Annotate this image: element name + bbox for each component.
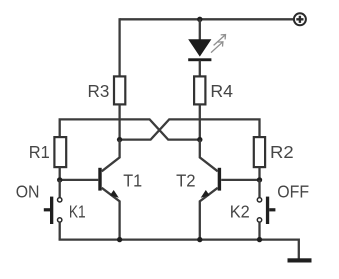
pushbutton K2	[257, 197, 275, 224]
wire cross-coupling: R1 top to T2 collector node	[60, 119, 200, 139]
wire left drop from rail to R3	[118, 18, 120, 76]
wire base node to K1 top contact	[59, 180, 61, 197]
label K2	[230, 202, 250, 222]
wire K2 bottom contact to ground rail	[258, 222, 260, 239]
wire base node to K2 top contact	[258, 180, 260, 197]
resistor R2	[254, 137, 265, 167]
label K1	[69, 202, 86, 222]
ground	[288, 258, 312, 262]
label T1	[123, 170, 142, 190]
svg-text:T1: T1	[123, 170, 142, 190]
node junction dot at LED branch on top rail	[197, 17, 202, 22]
label T2	[176, 170, 196, 190]
wire T1 base	[60, 179, 99, 181]
node junction dot K2 on rail	[257, 237, 262, 242]
wire R2 bottom to base node	[258, 167, 260, 180]
label R3	[88, 81, 110, 101]
svg-text:R1: R1	[29, 142, 50, 162]
wire R1 bottom to base node	[59, 167, 61, 180]
label R4	[210, 81, 233, 101]
svg-text:ON: ON	[16, 181, 40, 201]
wire LED cathode to R4	[199, 61, 201, 77]
svg-text:R4: R4	[210, 81, 233, 101]
wire cross-coupling: T1 collector node to R2 top	[120, 119, 260, 139]
wire top supply rail	[120, 18, 294, 20]
pushbutton K1	[44, 197, 62, 224]
svg-text:R2: R2	[270, 142, 294, 162]
LED emission arrows	[211, 35, 226, 53]
svg-text:K2: K2	[230, 202, 250, 222]
svg-text:OFF: OFF	[277, 181, 309, 201]
label OFF	[277, 181, 309, 201]
svg-text:R3: R3	[88, 81, 110, 101]
power terminal +	[294, 13, 306, 25]
wire R4 bottom to T2 collector node	[199, 104, 201, 139]
LED diode triangle	[188, 39, 211, 56]
wire T2 base	[221, 179, 259, 181]
svg-text:K1: K1	[69, 202, 86, 222]
wire K1 bottom contact to ground rail	[59, 222, 61, 239]
transistor T1	[98, 140, 119, 240]
label ON	[16, 181, 40, 201]
transistor T2	[200, 140, 221, 240]
label R1	[29, 142, 50, 162]
node junction dot T2 collector	[197, 137, 202, 142]
resistor R4	[194, 76, 205, 104]
wire R3 bottom to T1 collector node	[118, 104, 120, 139]
node junction dot T2 base	[257, 177, 262, 182]
node junction dot T2 emitter on rail	[197, 237, 202, 242]
node junction dot T1 base	[57, 177, 62, 182]
wire LED anode from top rail	[199, 19, 201, 40]
node junction dot T1 emitter on rail	[117, 237, 122, 242]
node junction dot T1 collector	[117, 137, 122, 142]
LED cathode bar	[188, 58, 211, 61]
resistor R1	[54, 137, 66, 167]
svg-text:T2: T2	[176, 170, 196, 190]
resistor R3	[114, 76, 125, 104]
wire bottom ground rail	[60, 239, 299, 259]
label R2	[270, 142, 294, 162]
